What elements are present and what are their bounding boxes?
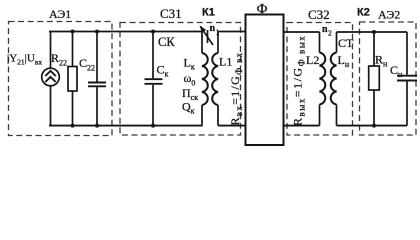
svg-text:Сн: Сн <box>390 63 403 79</box>
label Lк <box>184 56 195 72</box>
svg-text:L1: L1 <box>219 55 232 69</box>
label Rвых=1/GФвых (vertical) <box>291 35 307 126</box>
svg-text:К1: К1 <box>202 7 215 19</box>
capacitor Сн <box>397 32 417 126</box>
wire bus filter output <box>284 125 320 127</box>
junction dots rail R22/C22/Ск <box>71 30 156 128</box>
tap arrow n1 <box>200 25 213 45</box>
svg-text:2: 2 <box>328 29 332 38</box>
svg-text:АЭ2: АЭ2 <box>378 8 400 22</box>
block С31 dashed box <box>120 23 241 136</box>
label Ф <box>257 2 268 17</box>
label С31 <box>160 6 182 21</box>
svg-text:С32: С32 <box>308 7 330 22</box>
label Qк <box>182 100 195 116</box>
inductor L1 (secondary coil) <box>212 32 218 126</box>
junction dots Rн <box>372 30 376 128</box>
label n2 <box>322 24 332 38</box>
svg-text:Rн: Rн <box>375 53 388 69</box>
label Сн <box>390 63 403 79</box>
svg-text:Lк: Lк <box>184 56 195 72</box>
svg-text:АЭ1: АЭ1 <box>49 7 71 21</box>
resistor R22 <box>68 32 77 126</box>
label Rвх=1/GФвх (vertical) <box>228 52 244 126</box>
current source |Y21|Uвх <box>42 32 60 126</box>
svg-text:С31: С31 <box>160 6 182 21</box>
label Lн <box>338 53 350 69</box>
label L1 <box>219 55 232 69</box>
wire rail filter output <box>284 31 320 33</box>
svg-text:С22: С22 <box>79 56 95 73</box>
label Ск <box>157 63 169 79</box>
wire rail load side <box>337 31 408 33</box>
svg-text:Rвых=1/GФ вых: Rвых=1/GФ вых <box>291 35 307 126</box>
capacitor C22 <box>88 32 106 126</box>
capacitor Ск <box>145 32 163 126</box>
svg-text:Lн: Lн <box>338 53 350 69</box>
svg-text:L2: L2 <box>306 53 319 67</box>
label ω0 <box>184 71 196 88</box>
svg-text:|Y21|Uвх: |Y21|Uвх <box>7 53 42 67</box>
svg-text:К2: К2 <box>357 7 370 19</box>
label АЭ2 <box>378 8 400 22</box>
svg-text:Ск: Ск <box>157 63 169 79</box>
label Пск <box>182 86 198 102</box>
svg-text:Ф: Ф <box>257 2 268 17</box>
label n1 <box>210 23 220 37</box>
wire bus load side <box>337 125 408 127</box>
label |Y21|Uвх <box>7 53 42 67</box>
wire rail to filter input <box>218 31 246 33</box>
wire top rail left <box>49 31 203 33</box>
label СК <box>158 35 175 49</box>
label L2 <box>306 53 319 67</box>
svg-text:СК: СК <box>158 35 175 49</box>
label К2 <box>357 7 370 19</box>
wire bus to filter input <box>218 125 246 127</box>
svg-text:R22: R22 <box>51 51 67 68</box>
inductor L2 (filter output coil) <box>320 32 326 126</box>
label Rн <box>375 53 388 69</box>
label С32 <box>308 7 330 22</box>
block АЭ2 dashed box <box>360 22 417 135</box>
filter block Ф <box>246 15 284 146</box>
label К1 <box>202 7 215 19</box>
label СТ <box>338 36 354 50</box>
label АЭ1 <box>49 7 71 21</box>
inductor Lк (primary coil) <box>202 32 208 126</box>
label R22 <box>51 51 67 68</box>
inductor Lн (load coil) <box>331 32 337 126</box>
block С32 dashed box <box>287 23 353 136</box>
label C22 <box>79 56 95 73</box>
block АЭ1 dashed box <box>9 22 113 136</box>
resistor Rн <box>369 32 380 126</box>
wire bottom bus left <box>49 125 203 127</box>
svg-text:СТ: СТ <box>338 36 354 50</box>
